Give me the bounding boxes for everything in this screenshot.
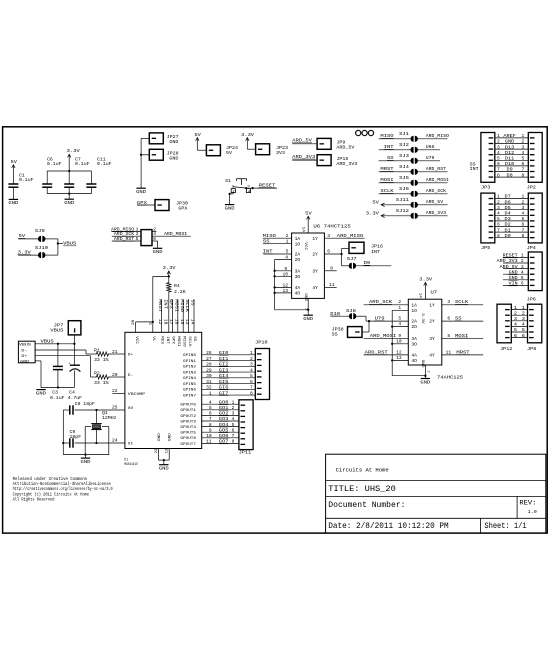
svg-text:GPX: GPX — [178, 206, 187, 212]
svg-text:ARD_RST: ARD_RST — [426, 166, 446, 172]
solder jumper SJ5 — [410, 180, 413, 186]
svg-text:GO2: GO2 — [219, 411, 229, 417]
net U79 wire out of SJ3 — [417, 160, 440, 162]
svg-text:R4: R4 — [174, 283, 180, 289]
solder jumper SJ2 — [410, 147, 413, 153]
svg-text:4Y: 4Y — [312, 285, 318, 291]
ground below S1 — [225, 204, 234, 206]
net ARD_5V wire out of SJ11 — [417, 204, 447, 206]
svg-text:JP11: JP11 — [239, 450, 252, 456]
svg-text:5V: 5V — [19, 233, 26, 239]
svg-text:GPIN7: GPIN7 — [183, 394, 197, 398]
svg-text:3.3V: 3.3V — [18, 249, 31, 255]
svg-text:ARD_MOSI: ARD_MOSI — [164, 231, 188, 237]
svg-text:D4: D4 — [505, 211, 511, 217]
svg-text:2: 2 — [232, 405, 235, 411]
svg-text:3: 3 — [514, 316, 517, 322]
capacitor C1 — [8, 183, 18, 185]
ground below crystal — [85, 455, 87, 458]
svg-text:D2: D2 — [505, 222, 511, 228]
svg-text:13: 13 — [184, 319, 188, 325]
svg-text:GND: GND — [36, 390, 46, 396]
wire JP5-5 to JP4-5 net D3 — [495, 220, 529, 222]
svg-text:GO1: GO1 — [219, 405, 229, 411]
svg-text:3.3V: 3.3V — [420, 313, 424, 324]
svg-text:6: 6 — [497, 161, 500, 167]
U1 bottom GND pins — [157, 449, 159, 461]
svg-text:7: 7 — [250, 385, 253, 391]
svg-text:GPOUT5: GPOUT5 — [180, 432, 196, 436]
svg-text:MISO: MISO — [179, 299, 184, 312]
svg-text:GND: GND — [303, 293, 307, 302]
svg-text:D+: D+ — [21, 355, 28, 359]
svg-text:MRST: MRST — [456, 349, 469, 355]
svg-text:All Rights Reserved: All Rights Reserved — [13, 498, 55, 503]
connector JP3 — [481, 133, 495, 183]
svg-text:31: 31 — [206, 379, 212, 385]
svg-text:7: 7 — [209, 416, 212, 422]
wire S1 to RESET — [251, 187, 277, 189]
svg-text:GI0: GI0 — [219, 350, 229, 356]
svg-text:5: 5 — [232, 422, 235, 428]
svg-text:1: 1 — [522, 133, 525, 139]
svg-text:U7: U7 — [431, 290, 438, 296]
jumper JP9 — [317, 138, 331, 149]
svg-text:14: 14 — [418, 293, 422, 299]
svg-text:3: 3 — [522, 316, 525, 322]
svg-text:7: 7 — [232, 433, 235, 439]
svg-text:6: 6 — [522, 333, 525, 339]
svg-text:GI2: GI2 — [219, 362, 229, 368]
left vertical wire to ground — [62, 410, 64, 455]
svg-text:INT: INT — [371, 249, 380, 255]
svg-text:4: 4 — [522, 150, 525, 156]
wire JP12-3 to JP8-3 — [511, 320, 527, 322]
svg-text:JP6: JP6 — [527, 297, 536, 303]
svg-text:4: 4 — [250, 367, 253, 373]
svg-text:2: 2 — [522, 310, 525, 316]
svg-text:RES: RES — [160, 336, 164, 345]
wire JP5-7 to JP4-7 net D1 — [495, 231, 529, 233]
wire JP12-5 to JP8-5 — [511, 331, 527, 333]
wire GPOUT4 net GO4 — [202, 426, 239, 428]
svg-text:1: 1 — [209, 390, 212, 396]
svg-text:27: 27 — [206, 356, 212, 362]
wire GPOUT2 net GO2 — [202, 414, 239, 416]
svg-text:JP16: JP16 — [371, 244, 383, 250]
svg-text:RESET: RESET — [503, 253, 518, 259]
connector JP2 — [528, 133, 542, 183]
svg-text:3.3V: 3.3V — [163, 265, 176, 271]
svg-text:REV:: REV: — [519, 499, 536, 507]
svg-text:Circuits At Home: Circuits At Home — [336, 467, 389, 473]
connector JP5 — [481, 193, 495, 243]
svg-text:5: 5 — [250, 373, 253, 379]
svg-text:4: 4 — [522, 211, 525, 217]
solder jumper SJ4 — [410, 169, 413, 175]
svg-text:8: 8 — [497, 233, 500, 239]
svg-text:SJ7: SJ7 — [347, 256, 357, 262]
svg-text:5: 5 — [522, 216, 525, 222]
svg-text:VIN: VIN — [509, 281, 518, 287]
svg-text:9: 9 — [209, 427, 212, 433]
svg-text:ARD_MISO: ARD_MISO — [426, 133, 449, 139]
svg-text:8: 8 — [209, 422, 212, 428]
svg-text:Document Number:: Document Number: — [328, 502, 405, 510]
net ARD_RST wire out of SJ4 — [417, 171, 447, 173]
svg-text:4Y: 4Y — [429, 353, 435, 359]
svg-text:2Y: 2Y — [429, 319, 435, 325]
svg-text:10: 10 — [206, 433, 212, 439]
svg-text:INT: INT — [384, 144, 394, 150]
wire JP3-3 to JP2-3 net D13 — [495, 148, 529, 150]
svg-text:GND: GND — [169, 155, 178, 161]
svg-text:11: 11 — [206, 439, 212, 445]
U7 enable tie vertical wire — [391, 310, 393, 375]
mounting hole circles — [356, 130, 361, 135]
wire JP6-6 net VIN — [503, 284, 528, 286]
wire JP3-2 to JP2-2 net GND — [495, 143, 529, 145]
svg-text:3.3V: 3.3V — [366, 211, 380, 217]
svg-text:GND: GND — [420, 379, 430, 385]
svg-text:ARD_RST: ARD_RST — [365, 349, 388, 355]
U1 VBCOMP pin 22 stub — [112, 392, 125, 394]
svg-text:12MHz: 12MHz — [102, 415, 117, 421]
svg-text:6: 6 — [521, 281, 524, 287]
svg-text:JP3: JP3 — [481, 184, 490, 190]
U7 output 2Y pin 6 net SS — [442, 320, 483, 322]
wire GPIN2 net GI2 — [202, 365, 256, 367]
wire JP5-4 to JP4-4 net D4 — [495, 214, 529, 216]
svg-text:JP8: JP8 — [527, 346, 536, 352]
jumper JP28 — [149, 149, 163, 160]
svg-text:SS: SS — [192, 336, 196, 342]
net ARD_MOSI wire out of SJ5 — [417, 182, 447, 184]
svg-text:GND: GND — [169, 432, 173, 441]
connector JP10 — [255, 349, 269, 400]
svg-text:SJ9: SJ9 — [35, 228, 45, 234]
wire GPOUT7 net GO7 — [202, 442, 239, 444]
svg-text:SJ12: SJ12 — [396, 208, 410, 214]
svg-text:4.7uF: 4.7uF — [68, 395, 83, 401]
capacitor C4 polarized — [73, 344, 75, 365]
svg-text:GND: GND — [505, 139, 514, 145]
svg-text:33 1%: 33 1% — [94, 357, 109, 363]
svg-text:19: 19 — [166, 448, 170, 454]
svg-text:3Y: 3Y — [429, 336, 435, 342]
svg-text:6: 6 — [514, 333, 517, 339]
schematic frame border — [3, 127, 548, 533]
svg-text:ARD_3V3: ARD_3V3 — [497, 258, 518, 264]
svg-text:1: 1 — [232, 399, 235, 405]
svg-text:RESET: RESET — [259, 182, 276, 188]
svg-text:3Y: 3Y — [312, 268, 318, 274]
svg-text:GO7: GO7 — [219, 439, 229, 445]
wire JP6-5 net GND — [503, 279, 528, 281]
svg-text:JP12: JP12 — [500, 346, 513, 352]
wire JP6-2 net ARD_3V3 — [503, 262, 528, 264]
U1 top pin 20 VCC and pin 2 VL wires — [135, 322, 137, 332]
svg-text:0.1uF: 0.1uF — [19, 177, 34, 183]
svg-text:GPIN4: GPIN4 — [183, 377, 197, 381]
wire U6 enable vertical to ground — [274, 260, 276, 310]
wire JP6-4 net GND — [503, 273, 528, 275]
svg-text:11: 11 — [329, 282, 335, 288]
svg-text:TITLE: UHS_20: TITLE: UHS_20 — [328, 485, 396, 494]
svg-text:GND: GND — [20, 360, 30, 364]
USB D- wire — [35, 349, 86, 351]
svg-text:4O: 4O — [295, 291, 301, 297]
capacitor C8 — [69, 405, 71, 414]
svg-text:D3: D3 — [505, 216, 511, 222]
svg-text:MRST: MRST — [157, 299, 162, 312]
svg-text:4O: 4O — [411, 358, 417, 364]
svg-text:SCLK: SCLK — [187, 336, 191, 347]
svg-text:3V3: 3V3 — [276, 150, 285, 156]
svg-text:1Y: 1Y — [312, 236, 318, 242]
svg-text:GI5: GI5 — [219, 379, 229, 385]
ground below U1 — [159, 464, 168, 466]
svg-text:SS: SS — [190, 299, 195, 306]
connector JP6 — [528, 252, 542, 291]
svg-text:INT: INT — [470, 166, 479, 172]
svg-text:33 1%: 33 1% — [94, 380, 109, 386]
svg-text:GND: GND — [159, 466, 169, 472]
wire JP5-3 to JP4-3 net D5 — [495, 209, 529, 211]
svg-text:MOSI: MOSI — [380, 177, 393, 183]
svg-text:VCC: VCC — [303, 242, 307, 251]
svg-text:4: 4 — [522, 322, 525, 328]
svg-text:GPIN2: GPIN2 — [183, 366, 197, 370]
svg-text:GND: GND — [153, 249, 163, 255]
svg-text:SJ1: SJ1 — [399, 131, 409, 137]
svg-text:6: 6 — [232, 427, 235, 433]
svg-text:S1: S1 — [225, 178, 231, 184]
svg-text:2: 2 — [497, 139, 500, 145]
jumper JP30 — [155, 200, 169, 211]
wire S1 to ground — [232, 193, 234, 194]
wire SJ9/SJ10 to VBUS — [45, 238, 58, 240]
svg-text:D7: D7 — [505, 194, 511, 200]
wire SJ7 to net D9 — [356, 265, 392, 267]
U7 ground pin 7 — [424, 365, 426, 378]
U7 output 1Y pin 3 net SCLK — [442, 304, 483, 306]
svg-text:JP7: JP7 — [54, 322, 64, 328]
svg-text:25: 25 — [112, 405, 118, 411]
svg-text:5V: 5V — [226, 150, 232, 156]
svg-text:15: 15 — [179, 319, 183, 325]
wire JP12-6 to JP8-6 — [511, 337, 527, 339]
svg-text:GPIN3: GPIN3 — [183, 371, 197, 375]
svg-text:5: 5 — [522, 327, 525, 333]
wire XI pin 24 — [63, 442, 69, 444]
svg-text:4: 4 — [514, 322, 517, 328]
svg-text:VBUS: VBUS — [50, 328, 64, 334]
svg-text:4: 4 — [232, 416, 235, 422]
wire JP3-4 to JP2-4 net D12 — [495, 154, 529, 156]
svg-text:ARD_5V: ARD_5V — [426, 199, 443, 205]
net U66 wire out of SJ2 — [417, 149, 440, 151]
jumper JP38 — [348, 327, 363, 338]
wire JP3-5 to JP2-5 net D11 — [495, 159, 529, 161]
svg-text:ARD_SCK: ARD_SCK — [369, 299, 392, 305]
svg-text:GPOUT2: GPOUT2 — [180, 415, 196, 419]
svg-text:SJ3: SJ3 — [399, 153, 409, 159]
svg-text:7: 7 — [497, 227, 500, 233]
svg-text:5V: 5V — [305, 210, 312, 216]
svg-text:7: 7 — [522, 227, 525, 233]
svg-text:26: 26 — [206, 350, 212, 356]
svg-text:VL: VL — [151, 336, 155, 342]
svg-text:INT: INT — [165, 336, 169, 345]
net ARD_3V3 wire out of SJ12 — [417, 215, 447, 217]
svg-text:Q1: Q1 — [102, 410, 108, 416]
svg-text:INT: INT — [163, 299, 168, 309]
svg-text:MISO: MISO — [181, 336, 185, 347]
svg-text:2: 2 — [521, 258, 524, 264]
U6 output 2Y pin 6 to JP16 — [324, 253, 341, 255]
svg-text:3: 3 — [250, 362, 253, 368]
svg-text:SJ5: SJ5 — [399, 175, 409, 181]
svg-text:21: 21 — [112, 349, 118, 355]
svg-text:GPIN5: GPIN5 — [183, 383, 197, 387]
svg-text:GI4: GI4 — [219, 373, 229, 379]
svg-text:GND: GND — [8, 200, 18, 206]
crystal Q1 — [96, 410, 98, 423]
svg-text:D12: D12 — [505, 150, 514, 156]
svg-text:3: 3 — [521, 264, 524, 270]
wire JP12-4 to JP8-4 — [511, 325, 527, 327]
ground below U7 — [421, 378, 430, 380]
solder jumper SJ12 — [410, 213, 413, 219]
U7 output 4Y pin 11 net MRST — [442, 354, 483, 356]
svg-text:32: 32 — [206, 385, 212, 391]
svg-text:AREF: AREF — [503, 133, 516, 139]
svg-text:GPX: GPX — [171, 336, 175, 345]
svg-text:VBUS: VBUS — [63, 241, 76, 247]
svg-text:ARD_5V: ARD_5V — [336, 145, 354, 151]
svg-text:GO4: GO4 — [219, 422, 229, 428]
svg-text:2: 2 — [522, 139, 525, 145]
ground below capacitor bank — [68, 194, 70, 199]
svg-text:+: + — [68, 362, 70, 366]
wire JP5-6 to JP4-6 net D2 — [495, 226, 529, 228]
svg-text:2: 2 — [497, 199, 500, 205]
svg-text:4: 4 — [209, 399, 212, 405]
svg-text:VCC: VCC — [134, 336, 138, 345]
wire GPIN5 net GI5 — [202, 383, 256, 385]
svg-text:8: 8 — [447, 333, 450, 339]
svg-text:1A: 1A — [295, 236, 301, 242]
svg-text:8: 8 — [250, 390, 253, 396]
svg-text:D11: D11 — [505, 156, 514, 162]
svg-text:1Y: 1Y — [429, 302, 435, 308]
svg-text:D8: D8 — [507, 172, 513, 178]
jumper JP15 — [317, 155, 331, 166]
svg-text:D-: D- — [128, 374, 133, 378]
svg-text:2O: 2O — [295, 257, 301, 263]
svg-text:14: 14 — [301, 227, 305, 233]
svg-text:C8 18pF: C8 18pF — [75, 401, 96, 407]
svg-text:11: 11 — [446, 349, 452, 355]
svg-text:ARD_MISO: ARD_MISO — [337, 233, 364, 239]
svg-text:U79: U79 — [375, 316, 385, 322]
wire JP3-6 to JP2-6 net D10 — [495, 165, 529, 167]
svg-text:1: 1 — [522, 305, 525, 311]
title block outline — [326, 454, 546, 533]
svg-text:GPOUT3: GPOUT3 — [180, 420, 196, 424]
svg-text:8: 8 — [497, 172, 500, 178]
ground below ICSP — [153, 247, 162, 249]
svg-text:3: 3 — [497, 144, 500, 150]
wire JP5-2 to JP4-2 net D6 — [495, 203, 529, 205]
svg-text:ARD_5V: ARD_5V — [500, 264, 518, 270]
svg-text:5: 5 — [522, 156, 525, 162]
svg-text:2: 2 — [514, 310, 517, 316]
svg-text:GND: GND — [420, 360, 424, 369]
wire GPIN4 net GI4 — [202, 377, 256, 379]
svg-text:SJ4: SJ4 — [399, 164, 409, 170]
svg-text:MOSI: MOSI — [173, 299, 178, 312]
svg-text:JP2: JP2 — [527, 184, 536, 190]
ICSP pads body — [141, 230, 152, 246]
capacitor C9 — [69, 438, 71, 447]
ground below JP27/JP28 — [136, 187, 145, 189]
svg-text:14: 14 — [190, 319, 194, 325]
svg-text:5V: 5V — [372, 200, 379, 206]
wire 2Y junction up to JP16 — [341, 249, 343, 266]
svg-text:SS: SS — [332, 331, 338, 337]
U6 output 1Y pin 3 net ARD_MISO — [324, 237, 364, 239]
svg-text:GPIN0: GPIN0 — [183, 354, 197, 358]
svg-text:MISO: MISO — [380, 133, 393, 139]
svg-text:SJ2: SJ2 — [399, 142, 409, 148]
connector JP12 — [497, 304, 511, 343]
svg-text:GND: GND — [225, 205, 235, 211]
svg-text:D9: D9 — [364, 260, 371, 266]
wire GPOUT1 net GO1 — [202, 409, 239, 411]
svg-text:5: 5 — [521, 275, 524, 281]
USB D+ wire — [35, 355, 90, 357]
svg-text:GI3: GI3 — [219, 367, 229, 373]
svg-text:C3: C3 — [52, 390, 58, 396]
wire junction down to JP38 — [368, 321, 370, 332]
resistor R4 — [168, 276, 170, 281]
U6 output 4Y pin 11 stub — [324, 286, 336, 288]
svg-text:1: 1 — [250, 350, 253, 356]
svg-text:1A: 1A — [411, 302, 417, 308]
svg-text:17: 17 — [168, 319, 172, 325]
svg-text:18pF: 18pF — [70, 434, 82, 440]
svg-text:3: 3 — [327, 233, 330, 239]
svg-text:2.2K: 2.2K — [174, 289, 186, 295]
svg-text:GND: GND — [158, 432, 162, 441]
svg-text:0.1uF: 0.1uF — [47, 161, 62, 167]
svg-text:3A: 3A — [411, 336, 417, 342]
svg-text:3: 3 — [232, 411, 235, 417]
svg-text:2: 2 — [398, 299, 401, 305]
wire — [12, 187, 14, 199]
solder jumper SJ1 — [410, 136, 413, 142]
svg-text:GI7: GI7 — [219, 390, 229, 396]
svg-text:6: 6 — [250, 379, 253, 385]
svg-text:23: 23 — [155, 448, 159, 454]
wire GPIN7 net GI7 — [202, 394, 256, 396]
svg-text:Sheet: 1/1: Sheet: 1/1 — [484, 523, 526, 531]
svg-text:8: 8 — [522, 172, 525, 178]
svg-text:SJ11: SJ11 — [396, 197, 410, 203]
svg-text:GO5: GO5 — [219, 427, 229, 433]
